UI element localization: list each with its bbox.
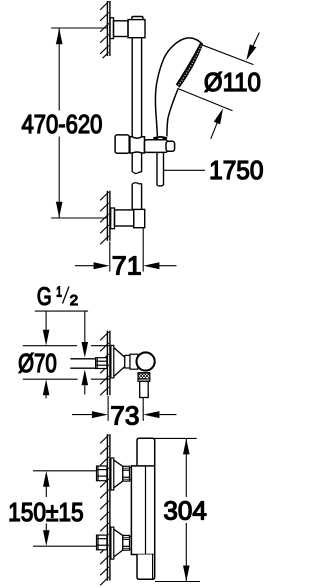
union neck wide: [130, 354, 138, 369]
union neck small: [125, 355, 130, 368]
leader line 1750: [164, 169, 206, 171]
bottom rail bracket escutcheon: [111, 208, 115, 229]
rail break lower end: [132, 183, 141, 184]
knurled nut below ball: [138, 373, 150, 382]
svg-text:1: 1: [56, 283, 62, 300]
dimension Ø110 arrow lower: [211, 122, 218, 139]
dimension 304 bottom extension line: [155, 581, 200, 583]
dimension 470-620 line lower part: [58, 137, 60, 218]
svg-text:Ø110: Ø110: [204, 67, 261, 97]
dimension 150±15 arrow down: [45, 523, 47, 530]
dimension 304 line lower part: [185, 523, 187, 581]
outlet tube: [140, 381, 149, 397]
dimension 71 right arrow: [159, 265, 177, 267]
dimension 304 top extension line: [152, 437, 197, 439]
hose end cap: [157, 185, 164, 186]
svg-text:304: 304: [163, 495, 206, 525]
dimension Ø70 lower outside arrow left: [45, 395, 47, 399]
wall segment top bracket: [107, 1, 110, 56]
slider clamp: [130, 137, 145, 153]
svg-text:71: 71: [112, 250, 142, 280]
slider right knob: [166, 141, 175, 151]
hand shower head outline: [157, 38, 202, 80]
wall hatching bottom bracket: [100, 192, 109, 244]
top union hex nipple: [97, 466, 107, 481]
union escutcheon flange (middle fitting): [111, 345, 114, 378]
wall hatching thermostat: [100, 435, 109, 585]
dimension 150±15 top extension line: [33, 470, 97, 472]
dimension 71 left arrow: [75, 265, 95, 267]
top rail cap: [132, 17, 143, 20]
rail upper tube: [132, 38, 141, 137]
svg-text:Ø70: Ø70: [18, 348, 57, 378]
wall segment thermostat: [107, 434, 110, 580]
thermostat body middle shadow line: [145, 466, 147, 555]
wall hatching top: [100, 1, 109, 58]
dimension 470-620 top extension line: [51, 27, 107, 29]
thermostat bottom cap shadow line: [152, 555, 154, 580]
dimension 71 left extension line: [109, 242, 111, 272]
hose: [157, 152, 164, 185]
bottom rail bracket arm: [115, 210, 134, 226]
inlet hex nipple: [96, 358, 107, 369]
top union cone: [114, 460, 123, 488]
dimension 470-620 arrow up: [56, 28, 63, 44]
slider left knob: [115, 135, 129, 153]
wall segment bottom bracket: [107, 191, 110, 241]
thermostat body middle: [131, 466, 154, 555]
dimension Ø110 extension line upper: [201, 44, 254, 64]
handle socket dark crescent: [153, 136, 168, 141]
G 1/2 bracket line: [35, 310, 88, 312]
top rail bracket arm: [114, 21, 129, 37]
dimension Ø110 extension line lower: [179, 89, 233, 111]
dimension 150±15 arrow up: [45, 487, 47, 497]
rail lower tube: [132, 184, 141, 210]
svg-text:73: 73: [110, 401, 139, 431]
bottom rail bracket head: [134, 209, 145, 227]
holder ball: [137, 352, 155, 370]
svg-text:1750: 1750: [209, 155, 263, 185]
top union flange: [111, 458, 114, 490]
dimension 73 left arrow: [72, 414, 93, 416]
hand shower face band inner edge: [176, 43, 200, 85]
rail break upper end: [132, 171, 141, 173]
handle socket crescent highlight: [158, 138, 163, 140]
dimension 304 arrow up: [183, 439, 190, 455]
svg-text:470-620: 470-620: [22, 109, 103, 139]
slider holder body: [145, 140, 168, 153]
dimension 73 right extension line: [142, 398, 144, 421]
bottom union hex nipple: [97, 535, 107, 550]
bottom union cone: [114, 529, 123, 557]
hand shower face band stipple highlights: [178, 46, 201, 86]
G 1/2 lower outside arrow right: [84, 386, 86, 395]
dimension 470-620 line upper part: [58, 28, 60, 110]
dimension 150±15 bottom extension line: [33, 545, 97, 547]
top rail head: [128, 20, 145, 38]
dimension 73 right arrow: [159, 414, 177, 416]
thermostat body bottom cap: [137, 555, 155, 580]
svg-text:2: 2: [70, 292, 78, 309]
union cone (middle fitting): [114, 348, 125, 377]
hand shower handle left edge: [155, 80, 157, 136]
dimension 71 right extension line: [142, 228, 144, 271]
dimension 73 left extension line: [107, 396, 109, 421]
G 1/2 right drop with arrow: [84, 311, 86, 343]
dimension Ø70 bottom extension line: [23, 378, 78, 380]
dimension 304 line upper part: [185, 439, 187, 497]
hand shower handle right edge: [167, 88, 179, 136]
wall hatching middle: [100, 332, 109, 395]
G 1/2 left drop with arrow: [45, 311, 47, 331]
dimension Ø70 top extension line: [23, 345, 77, 347]
bottom union flange: [111, 527, 114, 559]
hand shower face band outer edge: [179, 44, 203, 87]
wall segment middle fitting: [107, 331, 110, 396]
svg-text:G: G: [37, 283, 52, 311]
thermostat body top cap: [137, 438, 155, 466]
rail tube below slider: [132, 153, 141, 172]
top rail bracket escutcheon: [110, 18, 114, 39]
svg-text:150±15: 150±15: [8, 497, 84, 527]
bottom union nut: [123, 535, 132, 550]
hand shower face band dark fill: [176, 43, 202, 87]
dimension 304 arrow down: [183, 566, 190, 582]
top union nut: [123, 466, 132, 481]
inlet pipe behind wall: [70, 359, 95, 368]
dimension 470-620 bottom extension line: [51, 217, 107, 219]
dimension 470-620 arrow down: [56, 202, 63, 218]
dimension Ø110 arrow upper: [253, 33, 259, 47]
